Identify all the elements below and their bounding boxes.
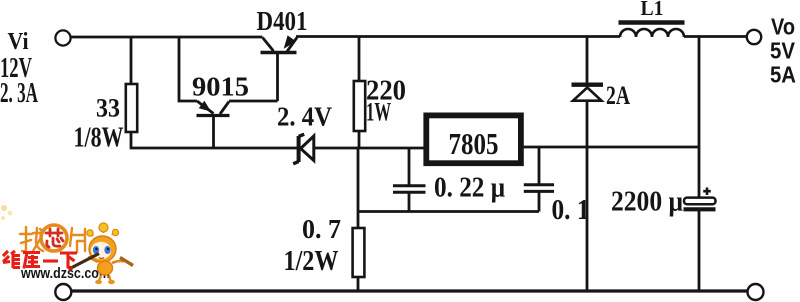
output terminal bottom	[748, 284, 764, 300]
wire 9015 emitter feed from top rail	[179, 37, 197, 101]
wire output node vertical	[698, 37, 701, 198]
capacitor C3 2200u electrolytic	[684, 188, 716, 292]
svg-text:2A: 2A	[606, 81, 630, 110]
svg-text:7805: 7805	[449, 126, 499, 161]
input terminal bottom	[55, 284, 71, 300]
svg-text:2. 3A: 2. 3A	[0, 78, 38, 109]
svg-text:33: 33	[96, 94, 120, 123]
resistor R3 0.7 1/2W	[353, 148, 365, 291]
wire 9015 collector to D401 base	[229, 100, 278, 103]
wire bottom rail	[71, 289, 747, 292]
svg-text:D401: D401	[257, 6, 308, 36]
output terminal Vo top	[747, 30, 761, 44]
watermark char pian (outline)	[70, 228, 85, 252]
transistor Q1 D401 (PNP pass transistor)	[261, 37, 298, 101]
svg-text:L1: L1	[641, 0, 664, 20]
resistor R1 33 1/8W	[126, 37, 137, 148]
watermark text weiku yixia (red strokes)	[3, 251, 77, 269]
watermark magnifier	[41, 225, 67, 251]
diode D1 2A freewheeling	[572, 37, 604, 291]
capacitor C2 0.1	[524, 147, 554, 212]
wire top rail from L1 to output terminal	[684, 35, 747, 38]
svg-text:0. 7: 0. 7	[302, 214, 341, 244]
wire 9015 base lead down to mid rail	[212, 116, 215, 149]
svg-text:1W: 1W	[366, 98, 391, 127]
watermark mascot	[68, 223, 133, 284]
inductor L1 core bar	[619, 20, 685, 24]
svg-text:1/2W: 1/2W	[284, 245, 339, 277]
resistor R2 220 1W	[354, 37, 365, 148]
svg-text:Vo: Vo	[771, 14, 795, 40]
svg-text:0. 1: 0. 1	[552, 195, 590, 226]
inductor L1 winding	[620, 29, 684, 37]
watermark glow dots	[1, 205, 7, 211]
svg-text:www.dzsc.com: www.dzsc.com	[20, 266, 110, 282]
wire mid rail from zener to 7805 input	[314, 147, 424, 150]
wire top rail from input to D401 collector	[70, 36, 263, 39]
watermark char xin (red)	[46, 229, 63, 247]
wire mid rail left (33 ohm corner to zener)	[130, 147, 297, 150]
capacitor C1 0.22u	[393, 148, 426, 212]
svg-text:2200 μ: 2200 μ	[611, 186, 683, 218]
input terminal Vi top	[55, 30, 70, 45]
svg-text:Vi: Vi	[8, 29, 29, 55]
transistor Q2 9015 (PNP)	[197, 101, 230, 116]
watermark dzsc logo	[1, 205, 133, 284]
svg-text:9015: 9015	[192, 72, 249, 102]
svg-text:1/8W: 1/8W	[74, 123, 124, 154]
wire lower rail (ground of regulator caps)	[358, 210, 539, 213]
watermark char zhao (outline)	[20, 227, 43, 251]
svg-text:0. 22 μ: 0. 22 μ	[434, 173, 505, 204]
svg-text:2. 4V: 2. 4V	[277, 102, 332, 132]
wire mid rail right (7805 output to output node)	[522, 146, 699, 149]
diode D2 2.4V zener pointing left	[293, 134, 314, 164]
regulator U1 7805 box	[426, 115, 521, 163]
svg-text:5A: 5A	[770, 62, 796, 88]
wire top rail from D401 emitter to L1	[296, 35, 620, 38]
svg-text:5V: 5V	[770, 38, 796, 64]
